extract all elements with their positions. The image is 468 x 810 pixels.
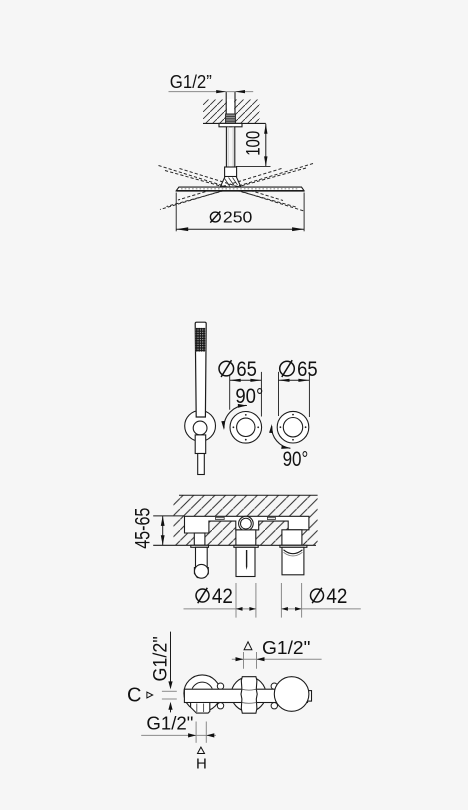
stub inner lines [196, 704, 198, 713]
port tab right [267, 517, 275, 519]
ceiling flange [219, 123, 242, 126]
center stub [236, 530, 256, 545]
cartridge box [236, 547, 255, 576]
handshower outlet pipe [196, 547, 208, 567]
wall hatch [174, 495, 318, 545]
svg-text:G1/2": G1/2" [151, 636, 172, 681]
right end cap [308, 691, 312, 702]
svg-text:G1/2": G1/2" [262, 638, 310, 658]
spout circle (front) [274, 677, 309, 712]
mixer body [185, 516, 309, 533]
svg-text:G1/2”: G1/2” [170, 71, 212, 92]
wall top line [179, 494, 318, 496]
dimension D42 left [184, 583, 256, 618]
spout cylinder [282, 547, 304, 575]
port tab left [216, 517, 225, 519]
svg-text:45-65: 45-65 [132, 508, 155, 549]
svg-text:H: H [196, 755, 207, 772]
hose [198, 454, 205, 475]
dimension G1/2 top [169, 71, 254, 93]
right rotation arc [269, 424, 290, 449]
handle sleeve [195, 435, 206, 454]
hose nut circle [195, 564, 209, 578]
dimension D65 right [279, 358, 318, 417]
left rotation arc [221, 404, 247, 430]
center inlet circle [239, 516, 254, 531]
svg-text:G1/2": G1/2" [146, 714, 193, 734]
right knob [277, 411, 309, 443]
svg-text:65: 65 [236, 358, 257, 381]
shower arm pipe [226, 127, 234, 167]
center flange [234, 545, 258, 547]
outlet stub front [191, 703, 210, 714]
handshower bracket circle [185, 411, 216, 442]
screw lugs [217, 683, 277, 709]
svg-text:90°: 90° [283, 448, 309, 471]
handshower stick [195, 322, 206, 417]
bracket knob [193, 421, 207, 435]
left stub [194, 533, 205, 545]
right flange [280, 545, 307, 547]
svg-text:42: 42 [326, 585, 347, 608]
spray lines [159, 164, 314, 212]
svg-text:65: 65 [297, 358, 318, 381]
right stub [282, 530, 302, 546]
dimension D65 left [219, 358, 261, 417]
shower head disc [176, 187, 304, 191]
center knob circle (front) [231, 677, 266, 712]
dimension G1/2 vertical [151, 632, 173, 690]
svg-text:100: 100 [244, 131, 265, 156]
marker H [196, 747, 207, 772]
dimension 100 [236, 124, 271, 167]
svg-text:42: 42 [212, 585, 233, 608]
arm connector [225, 167, 237, 177]
outlet holder [194, 568, 208, 578]
dimension 45-65 [132, 508, 185, 549]
dimension C [127, 685, 177, 713]
dimension G1/2 top right [232, 638, 322, 669]
wall face line [153, 544, 316, 546]
ceiling bottom line [203, 122, 266, 124]
svg-text:90°: 90° [235, 385, 263, 408]
spray face [196, 328, 205, 352]
lever handle front [241, 677, 257, 714]
svg-text:250: 250 [223, 209, 253, 226]
wall bar [184, 689, 307, 702]
threaded nipple [226, 114, 236, 123]
cone shading [225, 178, 238, 187]
svg-text:C: C [127, 685, 141, 707]
left flange [191, 545, 209, 547]
head cone [220, 177, 241, 187]
dimension D250 [176, 193, 304, 232]
left knob circle (front) [184, 675, 221, 712]
left knob [230, 412, 262, 444]
dimension D42 right [281, 583, 360, 618]
ceiling hatch [203, 100, 260, 124]
supply pipe through ceiling [226, 92, 235, 115]
dimension G1/2 bottom [141, 714, 216, 743]
